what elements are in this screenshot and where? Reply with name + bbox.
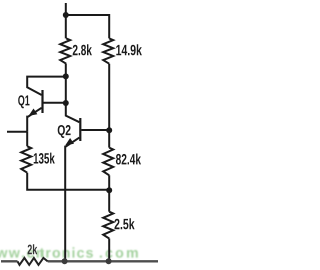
label 2.8k (73, 44, 92, 55)
label 14.9k (116, 44, 142, 55)
label 82.4k (116, 154, 141, 165)
node C junction dot (Q2 base) (106, 127, 112, 133)
wire top supply stub (65, 3, 67, 15)
wire 2.5k to bottom rail (108, 239, 110, 262)
wire Q2 base lead (81, 129, 109, 131)
wire Q1 emitter (27, 108, 41, 132)
label 2k (28, 244, 38, 254)
wire top rail (66, 15, 109, 38)
transistor Q2 base bar (79, 118, 81, 141)
node E junction dot (bottom left) (62, 258, 68, 264)
wire Q1 collector (27, 77, 66, 95)
wire Q2 emitter (65, 138, 79, 262)
transistor Q1 base bar (41, 90, 43, 113)
wire left column upper (65, 15, 67, 38)
resistor R4 82.4k (103, 148, 113, 176)
node D junction dot (106, 187, 112, 193)
node F junction dot (bottom right) (106, 258, 112, 264)
wire Q1 base lead (44, 102, 66, 104)
label Q2 (58, 125, 71, 138)
watermark www.cntronics.com (0, 247, 138, 257)
wire 135k bottom to node D (27, 173, 109, 190)
resistor R6 2k (18, 258, 48, 265)
resistor R5 2.5k (103, 212, 113, 239)
wire 82.4k to node D (108, 175, 110, 211)
label 2.5k (115, 218, 135, 229)
label Q1 (18, 95, 29, 108)
label 135k (34, 153, 55, 164)
node B junction dot (63, 100, 69, 106)
node A junction dot (63, 73, 69, 79)
resistor R3 135k (26, 131, 28, 146)
junction dot top (63, 12, 69, 18)
wire Q2 collector (66, 103, 80, 122)
wire 2.8k to node B (65, 64, 67, 103)
transistor Q1 emitter arrow (29, 109, 38, 116)
wire right column mid (108, 64, 110, 148)
bottom ground rail (1, 260, 158, 262)
resistor R2 14.9k (103, 38, 113, 63)
resistor R1 2.8k (60, 38, 70, 63)
transistor Q2 emitter arrow (65, 138, 74, 145)
wire far-left stub (7, 131, 27, 133)
